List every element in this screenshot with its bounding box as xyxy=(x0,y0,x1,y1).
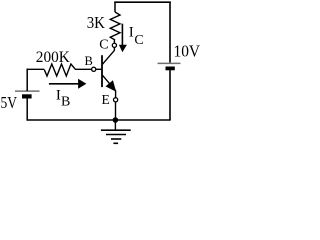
svg-text:I: I xyxy=(129,24,134,40)
node B xyxy=(92,67,96,71)
wire emitter stub xyxy=(115,91,117,98)
svg-text:5V: 5V xyxy=(1,93,18,112)
svg-text:B: B xyxy=(85,54,93,68)
battery 5V negative plate xyxy=(22,94,32,98)
svg-text:200K: 200K xyxy=(36,49,70,66)
svg-text:B: B xyxy=(61,95,70,110)
wire base left segment xyxy=(27,68,45,70)
wire C stub to resistor xyxy=(113,40,115,43)
wire base to bar xyxy=(96,68,102,70)
transistor Q1 emitter arrowhead xyxy=(106,80,117,92)
wire right vertical upper (to 10V +) xyxy=(169,2,171,63)
node C xyxy=(112,43,116,47)
wire base right segment xyxy=(76,68,92,70)
wire right vertical lower xyxy=(169,70,171,120)
battery 10V positive plate xyxy=(158,62,181,64)
wire emitter to ground rail xyxy=(115,102,117,120)
current arrow I_B xyxy=(49,79,87,89)
transistor Q1 bar xyxy=(101,55,103,87)
wire resistor top stub xyxy=(114,2,116,13)
node E xyxy=(114,98,118,102)
wire left vertical upper xyxy=(26,69,28,91)
wire bottom rail xyxy=(27,119,171,121)
wire left vertical lower xyxy=(26,99,28,121)
svg-text:3K: 3K xyxy=(87,13,106,32)
svg-text:C: C xyxy=(99,38,108,53)
resistor 200K xyxy=(44,64,75,76)
svg-text:10V: 10V xyxy=(174,42,201,61)
svg-text:E: E xyxy=(102,92,110,107)
svg-text:C: C xyxy=(134,33,143,48)
transistor Q1 emitter lead xyxy=(103,75,116,91)
resistor 3K xyxy=(110,12,120,40)
wire top rail xyxy=(114,1,170,3)
ground xyxy=(101,120,131,143)
current arrow I_C xyxy=(119,24,127,53)
junction dot xyxy=(113,117,119,123)
transistor Q1 collector lead xyxy=(103,47,115,64)
battery 5V positive plate xyxy=(15,90,40,92)
battery 10V negative plate xyxy=(166,67,175,71)
